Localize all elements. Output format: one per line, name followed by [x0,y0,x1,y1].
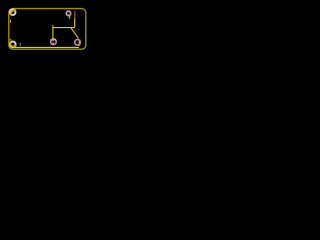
mounting hole H1 edge arc overlap [11,10,16,15]
pad P1 top (ring) [66,11,70,15]
silk long bottom line [14,46,80,48]
mounting hole H1 top-left: pad ring [9,8,17,16]
pad P3 gold nub [76,44,77,45]
silk vertical into P2 [52,25,54,39]
mounting hole H1 drill [11,10,15,14]
pad P2 drill [53,41,55,43]
mounting hole H2 bottom-left: pad ring [9,41,17,49]
pad P2 light top arc [51,39,56,40]
board outline (Edge.Cuts) [9,9,86,50]
pad P1 gold tail [69,16,70,19]
pad P3 right (ring) [75,39,81,45]
purple tick right of H2 [20,43,21,46]
mounting hole H2 drill [11,43,15,47]
gold tick below H1 [10,20,11,23]
pad P2 left (ring) [51,39,57,45]
pad P3 gold band [79,39,81,46]
background [0,0,96,58]
silk right vertical below purple [74,18,76,27]
pad P1 gold right arc [69,11,71,15]
purple vertical right of P1 [73,11,76,18]
mounting hole H2 edge arc overlap [10,42,16,47]
pad P2 gold bar [52,40,54,44]
silk diagonal to P3 [71,28,79,39]
silk top edge [52,27,74,29]
silkscreen outline (bright yellow) [52,18,78,39]
gold tick above H2 [10,39,12,41]
